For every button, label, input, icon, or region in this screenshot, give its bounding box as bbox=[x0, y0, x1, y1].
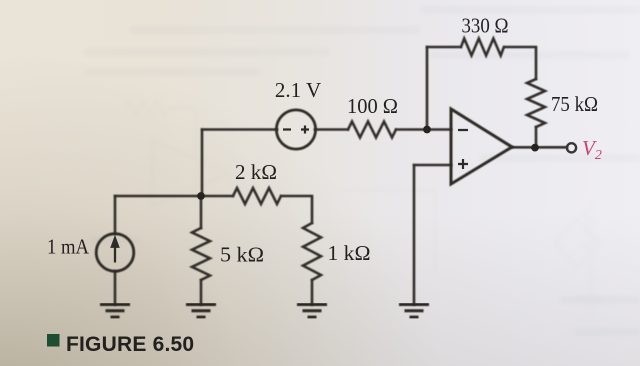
wire: 75 kohm down to output node bbox=[535, 127, 538, 148]
wire: voltage source right terminal to 100 ohm resistor bbox=[315, 128, 348, 131]
resistor 2 kohm bbox=[233, 188, 281, 204]
resistor 5 kohm bbox=[192, 228, 210, 280]
svg-text:330 Ω: 330 Ω bbox=[462, 14, 509, 38]
resistor 330 ohm bbox=[461, 39, 504, 56]
wire: 2 kohm right end, corner down to 1 kohm bbox=[281, 196, 312, 223]
wire: op-amp output to terminal bbox=[512, 146, 567, 149]
wire: 330 ohm to top right corner and down to 75k bbox=[505, 47, 536, 79]
svg-text:FIGURE 6.50: FIGURE 6.50 bbox=[66, 333, 194, 356]
wire: node A down to 5 kohm bbox=[200, 196, 203, 228]
figure caption marker (green square) bbox=[47, 334, 60, 347]
svg-text:2 kΩ: 2 kΩ bbox=[235, 160, 277, 184]
wire: 1 kohm down to ground bbox=[311, 280, 314, 305]
svg-text:75 kΩ: 75 kΩ bbox=[551, 92, 598, 116]
resistor 1 kohm bbox=[303, 223, 321, 280]
wire: feedback vertical up from node B bbox=[426, 47, 429, 130]
wire: op-amp noninverting input horizontal bbox=[414, 164, 451, 167]
wire: left vertical from 2.1V source down to node A bbox=[201, 130, 204, 197]
svg-text:V2: V2 bbox=[582, 136, 602, 163]
node junction dot (output node) bbox=[531, 144, 539, 152]
ground (current source) bbox=[100, 305, 130, 318]
wire: 100 ohm to op-amp inverting input (node B) bbox=[396, 128, 451, 131]
voltage source 2.1 V (circle) bbox=[276, 110, 315, 149]
wire: 5 kohm down to ground bbox=[200, 280, 203, 305]
svg-text:2.1 V: 2.1 V bbox=[275, 78, 321, 102]
wire: noninverting input down to ground bbox=[413, 165, 416, 305]
svg-text:1 mA: 1 mA bbox=[47, 235, 90, 259]
svg-text:1 kΩ: 1 kΩ bbox=[328, 241, 371, 265]
op-amp U1 bbox=[451, 109, 512, 184]
node junction dot (inverting input node) bbox=[423, 126, 431, 134]
current source 1 mA (circle) bbox=[96, 234, 134, 272]
ground (1 kohm) bbox=[297, 305, 327, 318]
op-amp input signs bbox=[458, 130, 468, 169]
resistor 100 ohm bbox=[348, 122, 396, 138]
output terminal (open circle) bbox=[567, 143, 576, 152]
wire: middle horizontal from current source to 2 kohm bbox=[115, 195, 233, 198]
resistor 75 kohm bbox=[527, 79, 545, 127]
wire: current source bottom lead to ground bbox=[114, 271, 117, 304]
svg-text:100 Ω: 100 Ω bbox=[347, 94, 398, 118]
ground (5 kohm) bbox=[186, 305, 216, 318]
node junction dot (node A) bbox=[197, 192, 205, 200]
wire: feedback top horizontal to 330 ohm bbox=[427, 46, 461, 49]
wire: node A horizontal to voltage source left terminal bbox=[202, 128, 277, 131]
voltage source polarity signs bbox=[283, 126, 309, 134]
wire: current source top lead bbox=[114, 196, 117, 234]
ground (op-amp noninverting input) bbox=[399, 305, 429, 318]
current source arrow bbox=[111, 236, 119, 263]
svg-text:5 kΩ: 5 kΩ bbox=[220, 243, 264, 267]
